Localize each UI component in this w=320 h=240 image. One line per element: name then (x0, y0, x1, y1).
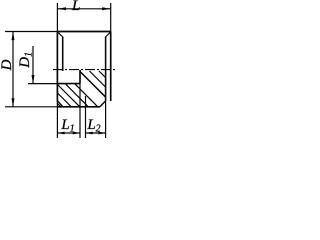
dimension line L (57, 8, 110, 10)
dimension line D (12, 32, 14, 107)
arrowhead D1 bottom (32, 75, 35, 84)
right end face edge (also extension line for L) (110, 3, 112, 101)
chamfer edge line, left end (62, 37, 64, 72)
wire: big internal diagonal edge (hole-bottom corner to chamfer) (80, 72, 106, 98)
arrowhead L2 left (86, 132, 93, 135)
chamfer diagonal, top-left corner (58, 33, 62, 37)
bore wall edge (inner diameter D1) (57, 83, 80, 85)
bottom face edge of cylinder (section outline) (57, 106, 100, 108)
arrowhead L right (102, 7, 111, 10)
arrowhead L1 right (73, 132, 80, 135)
dimension line L2 (86, 132, 106, 134)
svg-text:D: D (0, 59, 15, 71)
dimension line L1 (57, 132, 80, 134)
extension line for L2 left (85, 96, 87, 138)
arrowhead D top (12, 32, 15, 41)
arrowhead L2 right (98, 132, 105, 135)
hatching (section lines, 45deg) (57, 71, 106, 107)
arrowhead L left (57, 7, 66, 10)
extension line for D (top) (5, 31, 57, 33)
svg-text:L: L (71, 0, 80, 14)
chamfer diagonal, bottom-right corner (100, 101, 106, 107)
extension line for D (bottom) (5, 106, 57, 108)
dimension line D1 (32, 46, 34, 84)
chamfer diagonal, bottom-left corner (57, 101, 63, 107)
top face edge of cylinder (57, 31, 111, 33)
chamfer edge line, right end (continues as extension for L2) (105, 37, 107, 102)
left end face edge (also extension line for L and L1) (56, 3, 58, 138)
chamfer diagonal, top-right corner (106, 32, 111, 37)
extension line for D1 (28, 83, 57, 85)
arrowhead L1 left (57, 132, 64, 135)
arrowhead D bottom (12, 98, 15, 107)
bore bottom face edge (also extension line for L1 right) (79, 70, 81, 84)
centerline (part axis, dash-dot) (53, 69, 116, 71)
extension line for L2 right (105, 101, 107, 138)
